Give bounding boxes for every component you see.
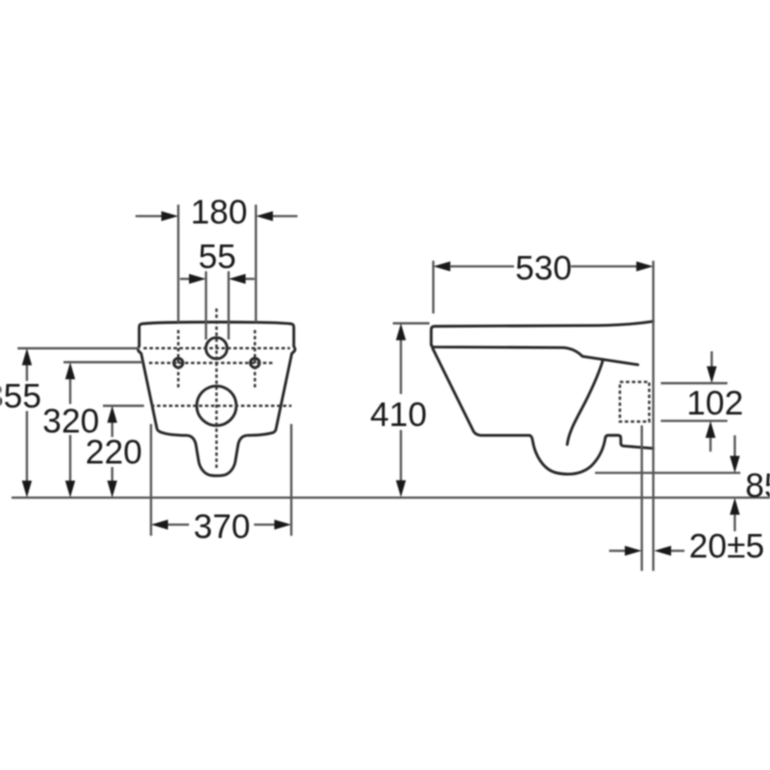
svg-text:370: 370: [194, 508, 251, 546]
rear view: inlet circle: [206, 338, 227, 359]
svg-text:410: 410: [370, 396, 427, 434]
rear view: vertical center dashed line: [215, 309, 217, 471]
svg-text:20±5: 20±5: [689, 528, 764, 566]
svg-text:180: 180: [191, 193, 248, 231]
side view: top edge and front edge: [431, 321, 653, 344]
dimension 20±5 arrows: [609, 550, 625, 552]
ref line 355 level: [18, 347, 140, 349]
dimension 85 leader line: [595, 472, 740, 474]
dimension 85 arrows: [734, 435, 736, 456]
svg-text:55: 55: [198, 238, 236, 276]
dimension 220 line: [111, 422, 113, 437]
side view: hidden connection dashed box: [620, 382, 649, 422]
dimension 102 top line: [661, 382, 728, 384]
side view: rim underside: [431, 344, 638, 365]
rear view: horizontal dashed line through outlet: [151, 405, 292, 407]
rear view: outlet circle: [197, 386, 237, 426]
dimension 410 ref line: [393, 322, 430, 324]
dimension 530 extension line: [432, 261, 434, 314]
rear view: dashed line through right hole: [254, 330, 256, 390]
side view: bottom outer silhouette: [433, 348, 654, 474]
rear view: horizontal dashed line through inlet: [144, 347, 291, 349]
dimension 102 arrows: [711, 351, 713, 366]
svg-text:220: 220: [85, 433, 142, 471]
outlet extension line (20±5): [641, 425, 643, 571]
ref line 320 level: [64, 361, 143, 363]
dimension 320 line: [69, 378, 71, 404]
dimension 530 line with arrows: [433, 261, 450, 271]
svg-text:102: 102: [687, 384, 744, 422]
ref line 220 level: [103, 405, 144, 407]
rear view: dashed line through left hole: [177, 330, 179, 390]
dimension 180 arrows: [136, 215, 163, 217]
rear view: right fixing hole: [250, 358, 259, 367]
dimension 102 bottom line: [661, 420, 728, 422]
svg-text:530: 530: [515, 250, 572, 288]
dimension 370 extension lines: [150, 424, 152, 536]
svg-text:85: 85: [745, 467, 770, 505]
dimension 410 line: [400, 339, 402, 394]
rear view: body outline: [138, 322, 295, 476]
rear view: horizontal dashed line through fixing holes: [149, 362, 273, 364]
svg-text:355: 355: [0, 378, 41, 416]
floor line: [12, 496, 770, 498]
wall line: [652, 261, 654, 571]
dimension 55 arrows: [180, 278, 190, 280]
dimension 180 extension lines: [177, 205, 179, 323]
dimension 55 extension lines: [205, 271, 207, 339]
dimension 355 line: [26, 364, 28, 381]
dimension 370 line with arrows: [168, 523, 190, 525]
side view: trap curve: [567, 361, 603, 445]
rear view: left fixing hole: [174, 358, 183, 367]
